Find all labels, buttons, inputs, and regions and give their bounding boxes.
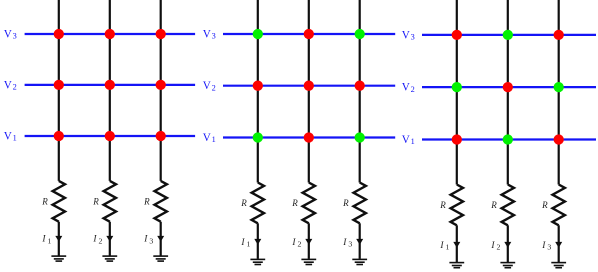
- wire resistor to ground (panel 2 column 1): [257, 223, 259, 258]
- node dot V2-col1 red (panel 2): [253, 81, 263, 91]
- svg-text:R: R: [541, 200, 548, 210]
- node dot V3-col2 red (panel 1): [105, 29, 115, 39]
- svg-text:R: R: [92, 196, 99, 206]
- svg-text:I: I: [240, 238, 245, 248]
- svg-text:R: R: [143, 196, 150, 206]
- resistor R (panel 3 column 1): [451, 185, 463, 226]
- svg-text:I: I: [541, 241, 546, 251]
- current arrow I3 (panel 2): [356, 239, 363, 245]
- svg-text:V: V: [203, 132, 211, 144]
- svg-text:1: 1: [247, 240, 251, 249]
- svg-text:2: 2: [99, 236, 103, 245]
- svg-text:I: I: [143, 235, 148, 245]
- node dot V2-col2 red (panel 3): [503, 82, 513, 92]
- svg-text:V: V: [402, 82, 410, 94]
- ground (panel 1 column 3): [153, 255, 168, 257]
- svg-text:2: 2: [298, 240, 302, 249]
- node dot V2-col1 green (panel 3): [452, 82, 462, 92]
- node dot V1-col2 red (panel 2): [304, 132, 314, 142]
- node dot V2-col1 red (panel 1): [54, 80, 64, 90]
- node dot V1-col3 green (panel 2): [355, 132, 365, 142]
- wire row V3 (panel 1): [25, 33, 196, 35]
- node dot V3-col1 red (panel 3): [452, 30, 462, 40]
- current arrow I2 (panel 3): [504, 242, 511, 248]
- svg-text:I: I: [439, 241, 444, 251]
- wire resistor to ground (panel 2 column 2): [308, 223, 310, 258]
- wire column 2 vertical (panel 1): [109, 0, 111, 181]
- svg-text:R: R: [342, 198, 349, 208]
- svg-text:3: 3: [411, 33, 415, 42]
- wire column 1 vertical (panel 3): [456, 0, 458, 185]
- svg-text:2: 2: [411, 85, 415, 94]
- node dot V2-col2 red (panel 1): [105, 80, 115, 90]
- wire resistor to ground (panel 3 column 2): [507, 225, 509, 262]
- node dot V1-col3 red (panel 1): [156, 131, 166, 141]
- current arrow I1 (panel 1): [55, 236, 62, 242]
- node dot V3-col1 green (panel 2): [253, 29, 263, 39]
- node dot V1-col1 red (panel 1): [54, 131, 64, 141]
- node dot V2-col3 red (panel 1): [156, 80, 166, 90]
- wire row V1 (panel 3): [422, 138, 596, 140]
- wire resistor to ground (panel 3 column 1): [456, 225, 458, 262]
- wire resistor to ground (panel 2 column 3): [359, 223, 361, 258]
- ground (panel 3 column 2): [500, 262, 515, 264]
- svg-text:V: V: [402, 29, 410, 41]
- node dot V1-col2 green (panel 3): [503, 134, 513, 144]
- svg-text:I: I: [291, 238, 296, 248]
- node dot V1-col1 red (panel 3): [452, 134, 462, 144]
- node dot V3-col2 red (panel 2): [304, 29, 314, 39]
- svg-text:V: V: [4, 79, 12, 91]
- svg-text:I: I: [92, 235, 97, 245]
- svg-text:3: 3: [212, 32, 216, 41]
- svg-text:2: 2: [497, 243, 501, 252]
- wire row V3 (panel 3): [422, 34, 596, 36]
- svg-text:2: 2: [212, 83, 216, 92]
- wire row V2 (panel 2): [223, 85, 395, 87]
- svg-text:V: V: [402, 134, 410, 146]
- svg-text:1: 1: [13, 134, 17, 143]
- current arrow I1 (panel 3): [453, 242, 460, 248]
- node dot V1-col2 red (panel 1): [105, 131, 115, 141]
- node dot V3-col3 green (panel 2): [355, 29, 365, 39]
- resistor R (panel 3 column 3): [553, 185, 565, 226]
- wire resistor to ground (panel 1 column 2): [109, 222, 111, 256]
- node dot V3-col1 red (panel 1): [54, 29, 64, 39]
- svg-text:V: V: [203, 80, 211, 92]
- wire resistor to ground (panel 1 column 1): [58, 222, 60, 256]
- svg-text:R: R: [240, 198, 247, 208]
- wire column 1 vertical (panel 2): [257, 0, 259, 183]
- resistor R (panel 2 column 1): [252, 183, 264, 224]
- resistor R (panel 1 column 1): [53, 181, 65, 222]
- wire column 2 vertical (panel 2): [308, 0, 310, 183]
- resistor R (panel 2 column 3): [354, 183, 366, 224]
- ground (panel 3 column 3): [551, 262, 566, 264]
- wire column 2 vertical (panel 3): [507, 0, 509, 185]
- resistor R (panel 2 column 2): [303, 183, 315, 224]
- svg-text:V: V: [4, 130, 12, 142]
- current arrow I1 (panel 2): [254, 239, 261, 245]
- svg-text:I: I: [41, 235, 46, 245]
- node dot V3-col2 green (panel 3): [503, 30, 513, 40]
- svg-text:V: V: [203, 28, 211, 40]
- wire row V2 (panel 1): [25, 84, 196, 86]
- ground (panel 2 column 1): [250, 258, 265, 260]
- wire resistor to ground (panel 1 column 3): [160, 222, 162, 256]
- node dot V2-col3 green (panel 3): [554, 82, 564, 92]
- svg-text:R: R: [490, 200, 497, 210]
- node dot V3-col3 red (panel 3): [554, 30, 564, 40]
- node dot V2-col2 red (panel 2): [304, 81, 314, 91]
- current arrow I3 (panel 3): [555, 242, 562, 248]
- resistor R (panel 1 column 2): [104, 181, 116, 222]
- svg-text:1: 1: [411, 137, 415, 146]
- node dot V2-col3 red (panel 2): [355, 81, 365, 91]
- svg-text:I: I: [490, 241, 495, 251]
- svg-text:R: R: [41, 196, 48, 206]
- node dot V3-col3 red (panel 1): [156, 29, 166, 39]
- ground (panel 1 column 1): [51, 255, 66, 257]
- wire column 3 vertical (panel 1): [160, 0, 162, 181]
- svg-text:I: I: [342, 238, 347, 248]
- wire row V2 (panel 3): [422, 86, 596, 88]
- svg-text:3: 3: [149, 236, 153, 245]
- wire resistor to ground (panel 3 column 3): [558, 225, 560, 262]
- wire row V1 (panel 1): [25, 135, 196, 137]
- wire row V1 (panel 2): [223, 136, 395, 138]
- current arrow I3 (panel 1): [157, 236, 164, 242]
- resistor R (panel 3 column 2): [502, 185, 514, 226]
- wire row V3 (panel 2): [223, 33, 395, 35]
- wire column 3 vertical (panel 2): [359, 0, 361, 183]
- svg-text:3: 3: [348, 240, 352, 249]
- node dot V1-col3 red (panel 3): [554, 134, 564, 144]
- svg-text:1: 1: [212, 135, 216, 144]
- ground (panel 1 column 2): [102, 255, 117, 257]
- wire column 1 vertical (panel 1): [58, 0, 60, 181]
- svg-text:2: 2: [13, 83, 17, 92]
- svg-text:R: R: [439, 200, 446, 210]
- svg-text:1: 1: [446, 243, 450, 252]
- ground (panel 3 column 1): [449, 262, 464, 264]
- current arrow I2 (panel 1): [106, 236, 113, 242]
- svg-text:1: 1: [48, 236, 52, 245]
- svg-text:V: V: [4, 28, 12, 40]
- resistor R (panel 1 column 3): [155, 181, 167, 222]
- current arrow I2 (panel 2): [305, 239, 312, 245]
- ground (panel 2 column 2): [301, 258, 316, 260]
- node dot V1-col1 green (panel 2): [253, 132, 263, 142]
- wire column 3 vertical (panel 3): [558, 0, 560, 185]
- svg-text:R: R: [291, 198, 298, 208]
- ground (panel 2 column 3): [352, 258, 367, 260]
- svg-text:3: 3: [13, 32, 17, 41]
- svg-text:3: 3: [547, 243, 551, 252]
